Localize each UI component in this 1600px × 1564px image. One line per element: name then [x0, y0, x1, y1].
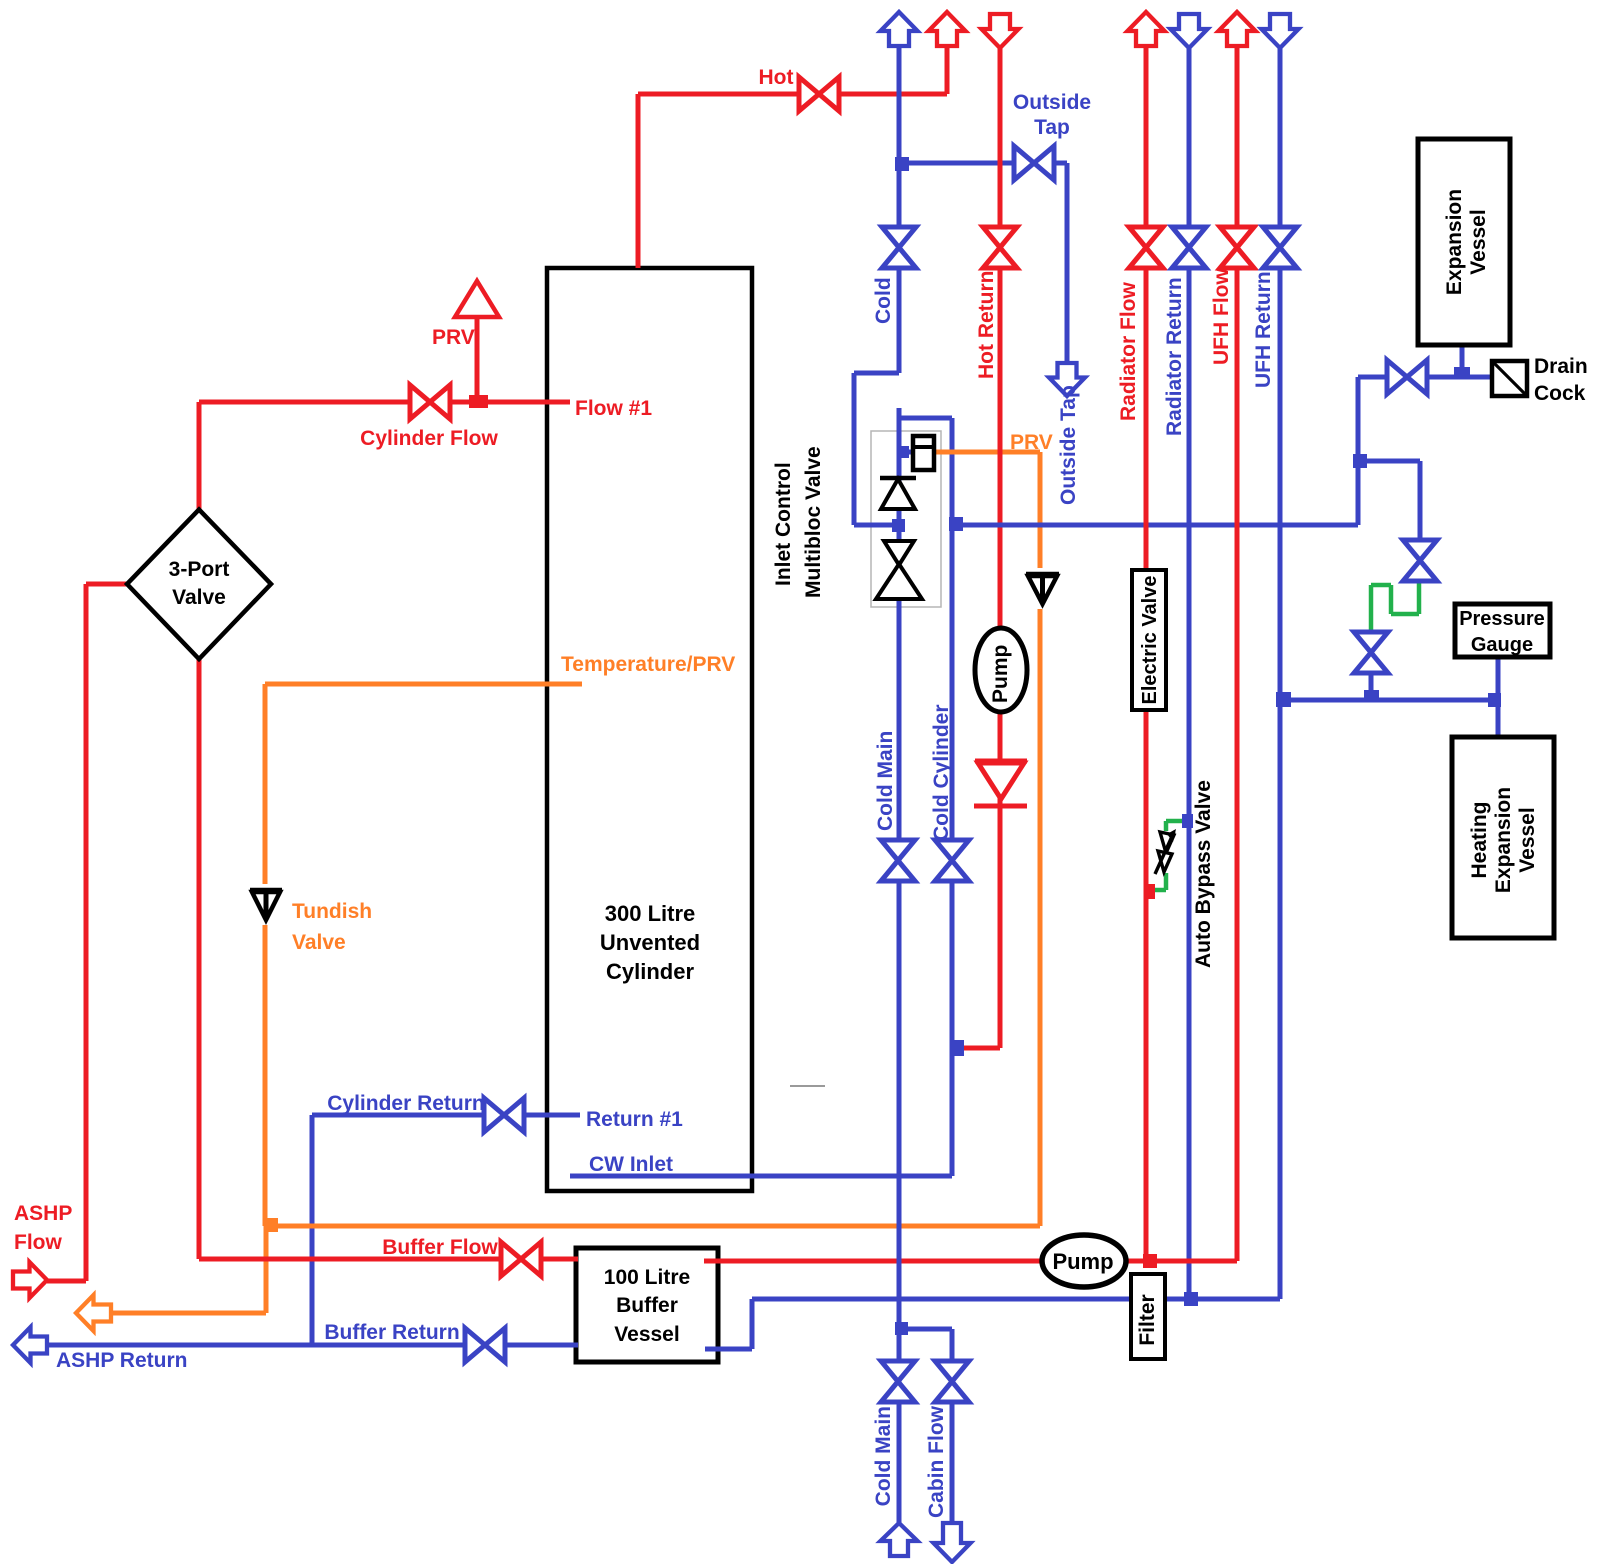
svg-text:Cold Main: Cold Main: [874, 731, 897, 831]
svg-text:Vessel: Vessel: [614, 1323, 679, 1346]
svg-text:Outside Tap: Outside Tap: [1057, 385, 1080, 505]
svg-text:Expansion: Expansion: [1443, 189, 1466, 295]
svg-text:Buffer Flow: Buffer Flow: [382, 1236, 498, 1259]
svg-text:300 Litre: 300 Litre: [605, 901, 696, 926]
svg-text:Tap: Tap: [1034, 116, 1070, 139]
svg-text:Cold Main: Cold Main: [872, 1406, 895, 1506]
svg-text:Tundish: Tundish: [292, 900, 372, 923]
svg-text:PRV: PRV: [1010, 431, 1053, 454]
svg-text:ASHP Return: ASHP Return: [56, 1349, 187, 1372]
svg-text:Buffer: Buffer: [616, 1294, 678, 1317]
svg-text:Filter: Filter: [1136, 1294, 1159, 1345]
svg-text:Radiator Return: Radiator Return: [1163, 277, 1186, 436]
svg-text:Flow: Flow: [14, 1231, 62, 1254]
svg-text:Return #1: Return #1: [586, 1108, 683, 1131]
svg-text:Buffer Return: Buffer Return: [324, 1321, 459, 1344]
svg-text:Cock: Cock: [1534, 382, 1586, 405]
svg-text:Cold Cylinder: Cold Cylinder: [930, 704, 953, 841]
svg-text:Expansion: Expansion: [1492, 787, 1515, 893]
svg-text:PRV: PRV: [432, 326, 475, 349]
svg-text:Drain: Drain: [1534, 355, 1588, 378]
svg-text:Pump: Pump: [989, 645, 1012, 703]
svg-text:Flow #1: Flow #1: [575, 397, 652, 420]
svg-text:Cylinder Return: Cylinder Return: [327, 1092, 485, 1115]
svg-text:UFH Return: UFH Return: [1252, 271, 1275, 388]
svg-text:Valve: Valve: [292, 931, 346, 954]
svg-text:Radiator Flow: Radiator Flow: [1117, 281, 1140, 421]
svg-text:Heating: Heating: [1468, 801, 1491, 878]
svg-text:Outside: Outside: [1013, 91, 1091, 114]
svg-text:Auto Bypass Valve: Auto Bypass Valve: [1192, 780, 1215, 968]
svg-text:3-Port: 3-Port: [169, 558, 230, 581]
svg-text:Electric Valve: Electric Valve: [1139, 576, 1161, 705]
svg-text:Multibloc Valve: Multibloc Valve: [802, 446, 825, 598]
svg-text:Cabin Flow: Cabin Flow: [925, 1405, 948, 1518]
svg-text:Pressure: Pressure: [1459, 608, 1545, 630]
svg-text:Gauge: Gauge: [1471, 634, 1533, 656]
svg-text:Cylinder Flow: Cylinder Flow: [360, 427, 498, 450]
svg-text:Vessel: Vessel: [1516, 807, 1539, 872]
svg-text:100 Litre: 100 Litre: [604, 1266, 690, 1289]
svg-text:Vessel: Vessel: [1467, 209, 1490, 274]
svg-text:Valve: Valve: [172, 586, 226, 609]
svg-text:Temperature/PRV: Temperature/PRV: [561, 653, 735, 676]
svg-text:CW Inlet: CW Inlet: [589, 1153, 673, 1176]
svg-text:UFH Flow: UFH Flow: [1210, 268, 1233, 365]
svg-text:Pump: Pump: [1052, 1249, 1113, 1274]
svg-text:Cold: Cold: [872, 277, 895, 324]
svg-text:Inlet Control: Inlet Control: [772, 462, 795, 586]
svg-text:ASHP: ASHP: [14, 1202, 72, 1225]
svg-text:Hot Return: Hot Return: [975, 271, 998, 380]
svg-text:Hot: Hot: [759, 66, 794, 89]
svg-text:Unvented: Unvented: [600, 930, 700, 955]
svg-text:Cylinder: Cylinder: [606, 959, 694, 984]
